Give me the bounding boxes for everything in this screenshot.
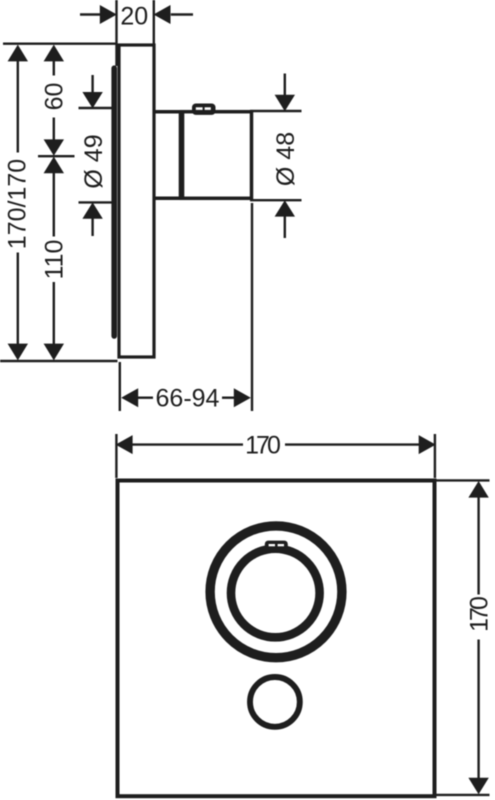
dim dia49 upper tail (91, 75, 93, 93)
dim 110 lower line (53, 282, 55, 345)
dim 66-94 left ext line (119, 362, 121, 411)
front tab white dash left (269, 544, 275, 546)
dim 20 left arrow (100, 5, 117, 24)
dim dia48 lower tail (284, 216, 286, 238)
dim 170 right: top ext line (437, 479, 490, 481)
dim dia48 bottom ext line (250, 199, 302, 201)
dim 170 right: lower line (477, 640, 479, 779)
top extension line (3, 43, 118, 45)
dim 170 top: left line (132, 443, 243, 445)
svg-text:170: 170 (465, 597, 493, 632)
dim 66-94 right arrow (234, 388, 251, 407)
dim 170/170 bottom arrow (8, 344, 28, 361)
front clip tab (265, 541, 288, 550)
dim 110 top arrow (44, 157, 64, 174)
outer ring (front view) (210, 526, 342, 658)
dim 170 top: left arrow (116, 435, 133, 454)
dim dia48 lower arrow (275, 200, 295, 216)
dim 60 lower tail (53, 118, 55, 141)
svg-text:66-94: 66-94 (156, 384, 220, 412)
dim dia49 lower tail (91, 218, 93, 236)
dim 170/170 line lower (17, 253, 19, 345)
dim 20 right arrow (154, 5, 171, 24)
dim dia49 lower arrow (82, 202, 102, 218)
svg-text:170/170: 170/170 (3, 159, 31, 249)
dim 170 right: bottom arrow (468, 778, 488, 795)
dim 170/170 top arrow (8, 45, 28, 62)
dim 60 top arrow (44, 45, 64, 62)
knob back flange thick edge (179, 110, 185, 200)
dim 60 upper tail (53, 61, 55, 76)
dim 170 top: right line (285, 443, 419, 445)
svg-text:60: 60 (41, 83, 69, 111)
knob clip tab (side view) (192, 104, 216, 115)
dim 20 left extension line (115, 0, 117, 66)
front tab white dash right (278, 544, 284, 546)
inner ring (front view) (231, 549, 320, 638)
dim dia49 top ext line (79, 107, 114, 109)
dim 66-94 right line (222, 397, 234, 399)
dim 66-94 left arrow (121, 388, 138, 407)
handle neck bottom line (154, 197, 182, 201)
svg-text:110: 110 (41, 240, 69, 280)
dim 66-94 right ext line (251, 203, 253, 411)
dim 170 top: right ext line (434, 434, 436, 478)
dim 20 right tail (171, 13, 193, 15)
svg-text:170: 170 (245, 432, 280, 460)
dim 20 right extension line (153, 0, 155, 45)
wall plate body (side view) (119, 45, 154, 357)
dim 170 right: top arrow (468, 481, 488, 498)
dim dia48 top ext line (250, 110, 302, 112)
dim dia49 upper arrow (82, 92, 102, 108)
dim 170 right: bottom ext line (437, 794, 490, 796)
tab white dash left (196, 107, 203, 110)
escutcheon plate (side view, rounded bar) (111, 68, 117, 336)
svg-text:Ø 49: Ø 49 (80, 134, 108, 188)
svg-text:Ø 48: Ø 48 (272, 132, 300, 186)
dim dia48 upper arrow (275, 95, 295, 111)
knob (side view) (182, 112, 252, 199)
dim 66-94 left line (138, 397, 153, 399)
tab white dash right (205, 107, 211, 110)
bottom extension line (0, 360, 118, 362)
dim 170/170 line upper (17, 61, 19, 153)
dim 170 right: upper line (477, 497, 479, 594)
dim dia49 bottom ext line (79, 201, 114, 203)
dim dia48 upper tail (284, 74, 286, 97)
dim 110 bottom arrow (44, 344, 64, 361)
front square plate (118, 481, 435, 797)
svg-text:20: 20 (120, 2, 148, 30)
dim 170 top: left ext line (115, 434, 117, 478)
small circle (front view) (250, 677, 300, 727)
knob centerline tick (38, 155, 75, 157)
dim 20 left tail (80, 13, 101, 15)
handle neck top line (154, 110, 182, 114)
dim 60 bottom arrow (44, 139, 64, 155)
dim 110 upper line (53, 173, 55, 237)
dim 170 top: right arrow (419, 435, 436, 454)
